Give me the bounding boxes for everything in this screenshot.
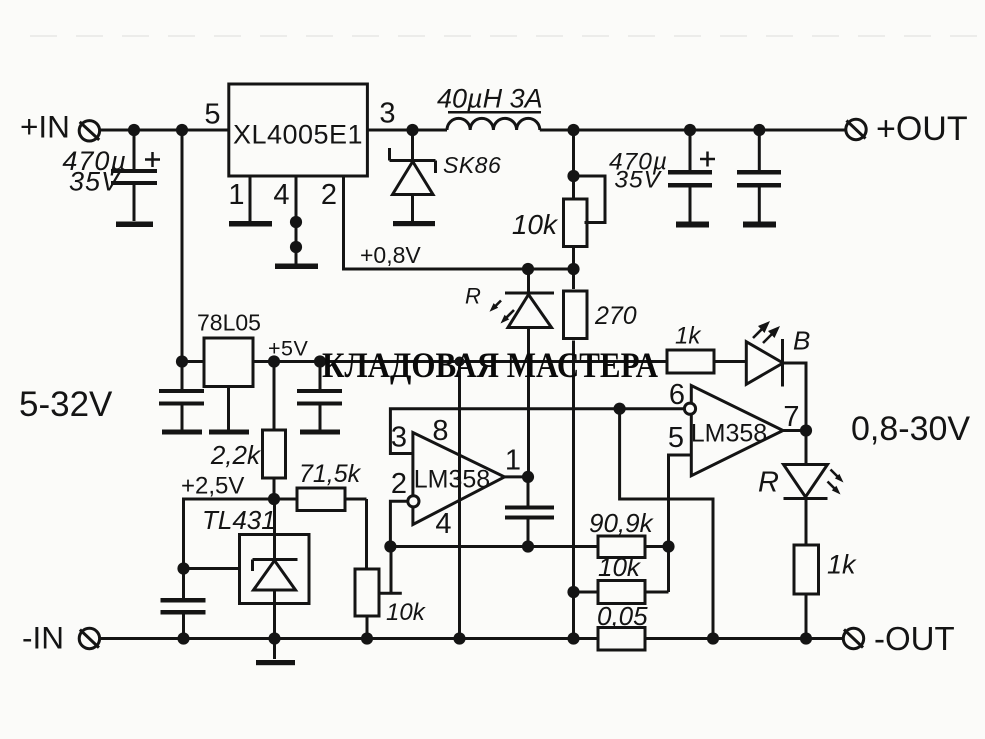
svg-text:90,9k: 90,9k: [589, 508, 655, 538]
op-amp U3A LM358: [413, 433, 505, 525]
svg-text:71,5k: 71,5k: [299, 460, 362, 488]
node pin3/SK86: [406, 124, 418, 136]
svg-text:3: 3: [391, 422, 407, 454]
node 10k mid left: [567, 586, 579, 598]
node top rail input branch: [176, 124, 188, 136]
svg-text:7: 7: [783, 401, 799, 433]
ground 78L05: [209, 430, 249, 435]
node pin 7: [800, 424, 812, 436]
capacitor +5V: [297, 362, 342, 431]
pin 6 bubble: [684, 403, 695, 414]
node top rail C1: [128, 124, 140, 136]
node TL431 ref: [177, 562, 189, 574]
capacitor TL431: [161, 569, 206, 639]
pin 4 wire: [295, 176, 298, 264]
svg-text:LM358: LM358: [691, 420, 767, 448]
svg-text:КЛАДОВАЯ МАСТЕРА: КЛАДОВАЯ МАСТЕРА: [322, 345, 658, 385]
svg-text:1: 1: [228, 179, 244, 211]
op-amp U3B LM358: [691, 386, 783, 476]
pin 8 / pin 4 supply wire through: [458, 362, 461, 639]
node +0,8V LED branch: [522, 263, 534, 275]
svg-text:3: 3: [379, 98, 395, 130]
svg-text:5: 5: [668, 422, 684, 454]
node pin6 feedback: [614, 403, 626, 415]
capacitor at pin 1: [505, 477, 554, 547]
resistor 1k right: [794, 545, 819, 639]
node rail TL431: [268, 632, 280, 644]
node Cout1: [684, 124, 696, 136]
node rail TL431 cap: [177, 632, 189, 644]
ground Cout2: [743, 222, 776, 228]
node +0,8V 270 branch: [567, 263, 579, 275]
svg-text:2: 2: [391, 468, 407, 500]
svg-text:0,8-30V: 0,8-30V: [851, 410, 970, 448]
svg-text:35V: 35V: [614, 167, 662, 194]
node rail feedback: [707, 632, 719, 644]
resistor 1k top: [667, 350, 746, 373]
ground +5V cap: [300, 430, 340, 435]
LED R right: [784, 431, 828, 546]
ground pin1: [229, 221, 272, 227]
potentiometer 10k lower left: [355, 547, 402, 639]
inductor L1 40uH 3A: [447, 112, 541, 130]
LED B: [746, 339, 806, 431]
node inductor out: [567, 124, 579, 136]
svg-text:4: 4: [273, 179, 289, 211]
node rail pin4: [453, 632, 465, 644]
node 2,2k top: [268, 355, 280, 367]
svg-text:10k: 10k: [598, 552, 642, 582]
resistor 2,2k: [263, 362, 286, 500]
svg-text:+OUT: +OUT: [876, 110, 968, 148]
wire top rail: [100, 129, 229, 132]
svg-text:-IN: -IN: [22, 620, 64, 656]
svg-text:+2,5V: +2,5V: [181, 473, 244, 500]
resistor 270: [564, 269, 588, 639]
wire pin3 to inductor: [367, 129, 447, 132]
svg-text:+IN: +IN: [20, 109, 70, 145]
svg-text:R: R: [465, 284, 481, 309]
wire bottom rail left: [100, 637, 598, 640]
regulator U2 78L05: [204, 338, 253, 387]
svg-text:4: 4: [435, 508, 451, 540]
wire 78L05 gnd pin: [227, 387, 230, 431]
svg-text:6: 6: [669, 379, 685, 411]
pin 7 wire: [783, 429, 806, 432]
resistor 71,5k: [297, 488, 367, 569]
svg-text:-OUT: -OUT: [874, 620, 955, 657]
pin 2 wire: [344, 176, 574, 269]
svg-text:5: 5: [204, 99, 220, 131]
resistor 90,9k: [598, 536, 669, 558]
node Cout2: [753, 124, 765, 136]
pin 2 wire with inverting bubble: [390, 496, 419, 547]
svg-text:1k: 1k: [675, 323, 702, 350]
diode VD1 SK86: [390, 130, 436, 221]
svg-text:XL4005E1: XL4005E1: [233, 120, 363, 150]
LED R right arrows: [828, 470, 844, 495]
svg-text:R: R: [758, 467, 779, 499]
svg-text:TL431: TL431: [202, 505, 276, 535]
ground pin4: [275, 264, 318, 270]
svg-text:+0,8V: +0,8V: [360, 242, 421, 268]
svg-text:1k: 1k: [827, 550, 857, 580]
svg-text:2,2k: 2,2k: [210, 440, 262, 470]
capacitor C1 470u 35V: [111, 130, 160, 221]
svg-text:LM358: LM358: [414, 466, 490, 494]
svg-text:8: 8: [432, 415, 448, 447]
terminal +IN: [79, 121, 99, 141]
pin 5 wire: [669, 455, 692, 592]
shunt reference U4 TL431: [184, 499, 310, 639]
node 90,9k right: [662, 540, 674, 552]
wire feedback to bottom rail: [620, 409, 713, 639]
wire inductor to +OUT: [540, 129, 846, 132]
pin 1 wire: [249, 176, 252, 221]
node +2,5V: [268, 493, 280, 505]
wire +2,5V node: [184, 499, 298, 569]
wire feedback row y546: [390, 545, 598, 548]
wire input branch down: [181, 130, 184, 362]
wire +5V rail: [253, 360, 668, 363]
svg-text:35V: 35V: [69, 167, 122, 197]
ground TL431 below rail: [273, 639, 276, 660]
svg-text:10k: 10k: [386, 599, 427, 626]
ground Cout1: [676, 222, 709, 228]
node rail 10k pot: [361, 632, 373, 644]
node cap junction: [522, 540, 534, 552]
capacitor input 78L05: [159, 362, 204, 431]
node rail 1k right: [800, 632, 812, 644]
node 5-32V branch: [176, 355, 188, 367]
ground SK86: [393, 221, 435, 226]
wire bottom rail right: [645, 637, 843, 640]
node pin4 a: [290, 216, 302, 228]
capacitor Cout2: [737, 130, 781, 222]
wire 78L05 left pin: [182, 360, 204, 363]
node pin 1: [522, 471, 534, 483]
LED R left arrows: [490, 301, 515, 324]
terminal -IN: [79, 628, 99, 648]
potentiometer R 10k top: [564, 130, 606, 269]
node +5V cap: [314, 355, 326, 367]
ground input cap: [162, 430, 202, 435]
svg-text:SK86: SK86: [443, 152, 501, 178]
svg-text:5-32V: 5-32V: [19, 385, 113, 424]
svg-text:0,05: 0,05: [597, 601, 648, 631]
svg-text:270: 270: [594, 302, 637, 330]
node pin8 +5V: [455, 357, 465, 367]
LED B arrows: [753, 321, 780, 343]
node pin2 junction: [384, 540, 396, 552]
pin 3 wire bracket: [390, 409, 685, 454]
svg-text:B: B: [793, 326, 810, 356]
svg-text:2: 2: [321, 179, 337, 211]
node pin4 b: [290, 241, 302, 253]
terminal -OUT: [843, 628, 863, 648]
svg-text:1: 1: [505, 445, 521, 477]
svg-text:40µH 3A: 40µH 3A: [437, 84, 543, 114]
resistor shunt 0,05: [598, 628, 645, 651]
resistor 10k mid: [574, 581, 669, 604]
svg-text:10k: 10k: [512, 209, 559, 240]
capacitor Cout1 470u 35V: [668, 130, 715, 222]
terminal +OUT: [846, 119, 866, 139]
LED R left: [505, 269, 554, 477]
ground C1: [116, 222, 153, 228]
pin 1 wire: [505, 475, 529, 478]
op-amp regulator U1 XL4005E1: [229, 84, 368, 176]
svg-text:78L05: 78L05: [197, 310, 261, 336]
faint frame dashes: [30, 35, 978, 37]
node rail 270 branch: [567, 632, 579, 644]
